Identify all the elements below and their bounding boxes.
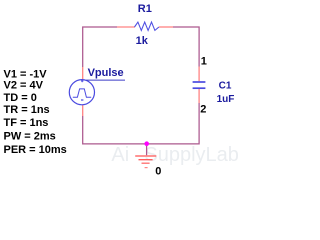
- svg-text:TD = 0: TD = 0: [4, 92, 37, 104]
- svg-text:PER = 10ms: PER = 10ms: [4, 144, 67, 156]
- svg-text:V2 = 4V: V2 = 4V: [4, 79, 44, 91]
- svg-text:Vpulse: Vpulse: [88, 67, 124, 79]
- svg-text:1uF: 1uF: [217, 94, 235, 105]
- svg-text:SupplyLab: SupplyLab: [144, 144, 239, 166]
- svg-text:Ai: Ai: [111, 144, 129, 166]
- svg-text:PW = 2ms: PW = 2ms: [4, 130, 56, 142]
- svg-text:1k: 1k: [136, 35, 149, 47]
- svg-text:0: 0: [155, 165, 161, 177]
- svg-text:2: 2: [200, 103, 206, 115]
- svg-text:R1: R1: [138, 3, 152, 15]
- svg-text:TR = 1ns: TR = 1ns: [4, 104, 50, 116]
- svg-text:C1: C1: [219, 80, 232, 91]
- svg-text:1: 1: [201, 56, 207, 68]
- svg-text:TF = 1ns: TF = 1ns: [4, 117, 49, 129]
